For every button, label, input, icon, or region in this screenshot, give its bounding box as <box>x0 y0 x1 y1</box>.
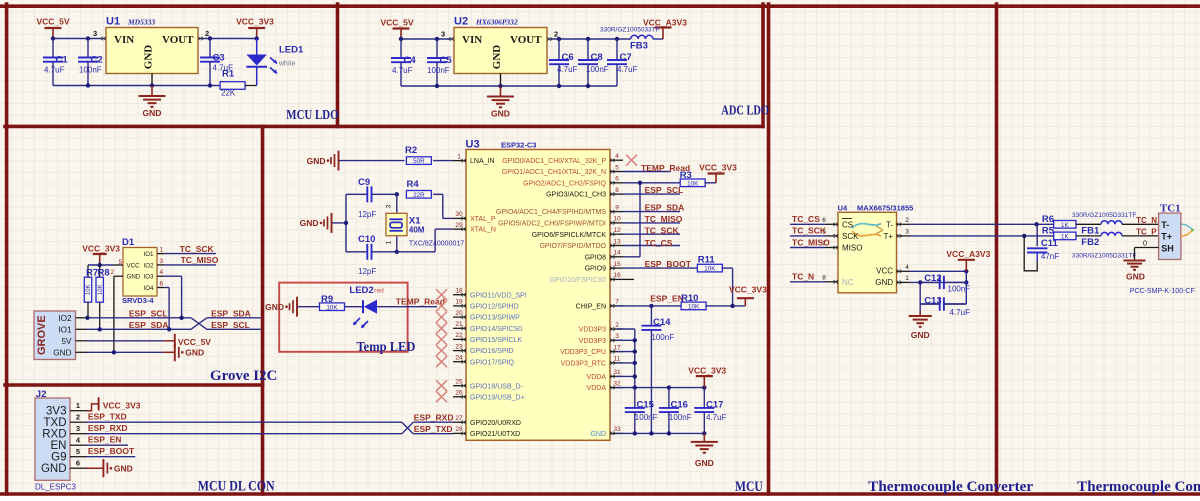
svg-text:4.7uF: 4.7uF <box>950 308 971 317</box>
svg-text:C11: C11 <box>1041 238 1059 249</box>
svg-text:ESP_SCL: ESP_SCL <box>129 308 168 318</box>
svg-text:4: 4 <box>905 264 909 271</box>
svg-text:4.7uF: 4.7uF <box>392 66 413 75</box>
svg-text:3: 3 <box>905 229 909 236</box>
svg-text:5V: 5V <box>61 337 72 346</box>
svg-text:9: 9 <box>615 204 619 211</box>
svg-text:GND: GND <box>127 274 141 281</box>
svg-text:R6: R6 <box>1042 214 1054 225</box>
svg-text:GND: GND <box>41 463 67 475</box>
svg-text:VCC_3V3: VCC_3V3 <box>82 244 120 254</box>
svg-text:C15: C15 <box>637 400 655 411</box>
svg-text:U3: U3 <box>466 139 480 151</box>
svg-text:2: 2 <box>554 30 558 39</box>
svg-text:C4: C4 <box>404 55 417 66</box>
svg-text:C14: C14 <box>653 317 671 328</box>
svg-text:IO2: IO2 <box>144 262 155 269</box>
svg-text:SH: SH <box>1161 243 1174 253</box>
svg-text:14: 14 <box>613 250 621 257</box>
svg-text:GPIO8: GPIO8 <box>585 254 607 261</box>
svg-text:3: 3 <box>615 333 619 340</box>
svg-text:GPIO4/ADC1_CH4/FSPIHD/MTMS: GPIO4/ADC1_CH4/FSPIHD/MTMS <box>496 209 606 216</box>
svg-text:IO3: IO3 <box>144 274 155 281</box>
svg-text:SRVD3-4: SRVD3-4 <box>122 296 154 305</box>
svg-text:TC_N: TC_N <box>1136 216 1157 225</box>
svg-text:100nF: 100nF <box>427 66 450 75</box>
svg-text:R7: R7 <box>86 268 98 279</box>
svg-text:1: 1 <box>160 247 164 254</box>
svg-text:GND: GND <box>185 348 204 358</box>
svg-text:GND: GND <box>1126 271 1145 281</box>
svg-text:10K: 10K <box>86 284 92 295</box>
svg-text:GPIO17/SPIQ: GPIO17/SPIQ <box>470 359 515 366</box>
svg-text:2: 2 <box>615 322 619 329</box>
svg-text:VCC_A3V3: VCC_A3V3 <box>946 249 990 259</box>
svg-text:3: 3 <box>160 258 164 265</box>
svg-text:VCC_5V: VCC_5V <box>36 17 69 27</box>
svg-text:100nF: 100nF <box>635 413 658 422</box>
svg-text:ESP_SCL: ESP_SCL <box>211 320 250 330</box>
svg-text:C5: C5 <box>440 55 453 66</box>
svg-text:GPIO11/VDD_SPI: GPIO11/VDD_SPI <box>470 292 527 299</box>
svg-text:IO2: IO2 <box>58 314 72 323</box>
svg-text:R10: R10 <box>681 293 698 304</box>
svg-text:C7: C7 <box>620 52 632 63</box>
svg-text:ESP_TXD: ESP_TXD <box>414 424 453 434</box>
svg-text:GPIO12/SPIHD: GPIO12/SPIHD <box>470 304 519 311</box>
svg-text:LNA_IN: LNA_IN <box>470 158 495 165</box>
svg-text:16: 16 <box>613 272 621 279</box>
svg-text:6: 6 <box>76 459 80 468</box>
svg-text:4.7uF: 4.7uF <box>706 413 727 422</box>
svg-text:VCC_5V: VCC_5V <box>178 337 211 347</box>
svg-text:white: white <box>278 61 295 68</box>
svg-text:GROVE: GROVE <box>36 315 48 355</box>
svg-text:GPIO15/SPICLK: GPIO15/SPICLK <box>470 337 522 344</box>
svg-text:1K: 1K <box>1061 234 1070 241</box>
svg-text:VDDA: VDDA <box>587 385 607 392</box>
svg-text:T-: T- <box>886 220 893 229</box>
svg-text:IO1: IO1 <box>58 325 72 334</box>
svg-text:0: 0 <box>1143 238 1147 247</box>
svg-text:C6: C6 <box>562 52 574 63</box>
svg-text:47nF: 47nF <box>1041 252 1059 261</box>
svg-text:1: 1 <box>905 275 909 282</box>
svg-text:5: 5 <box>76 447 80 456</box>
svg-text:R3: R3 <box>680 170 692 181</box>
svg-text:GND: GND <box>53 348 71 357</box>
svg-text:Grove I2C: Grove I2C <box>210 368 277 384</box>
svg-text:6: 6 <box>615 176 619 183</box>
svg-text:U1: U1 <box>106 16 120 28</box>
svg-text:GPIO9: GPIO9 <box>585 266 607 273</box>
svg-text:GPIO0/ADC1_CH0/XTAL_32K_P: GPIO0/ADC1_CH0/XTAL_32K_P <box>502 158 606 165</box>
svg-text:T+: T+ <box>1161 232 1172 242</box>
svg-text:CHIP_EN: CHIP_EN <box>576 304 606 311</box>
svg-text:D1: D1 <box>122 237 135 248</box>
svg-text:C12: C12 <box>924 273 941 284</box>
svg-text:7: 7 <box>615 299 619 306</box>
svg-text:R5: R5 <box>1042 225 1055 236</box>
svg-text:TC_CS: TC_CS <box>792 214 820 224</box>
svg-text:GND: GND <box>590 431 606 438</box>
svg-text:GPIO6/FSPICLK/MTCK: GPIO6/FSPICLK/MTCK <box>532 232 607 239</box>
svg-text:GPIO1/ADC1_CH1/XTAL_32K_N: GPIO1/ADC1_CH1/XTAL_32K_N <box>502 169 606 176</box>
svg-text:10K: 10K <box>688 304 700 311</box>
svg-text:VCC_3V3: VCC_3V3 <box>699 163 737 173</box>
svg-text:U4: U4 <box>838 204 848 213</box>
svg-text:ESP_SDA: ESP_SDA <box>129 320 169 330</box>
svg-text:C8: C8 <box>591 52 603 63</box>
svg-text:HX6306P332: HX6306P332 <box>475 18 518 27</box>
svg-text:GND: GND <box>265 302 284 312</box>
svg-text:FB3: FB3 <box>630 41 648 52</box>
svg-text:J2: J2 <box>36 389 47 400</box>
svg-text:100nF: 100nF <box>948 285 971 294</box>
svg-text:330R/GZ1005033TF: 330R/GZ1005033TF <box>600 27 660 34</box>
svg-text:TC_SCK: TC_SCK <box>645 226 680 236</box>
svg-text:FB2: FB2 <box>1081 237 1099 248</box>
svg-text:GPIO2/ADC1_CH2/FSPIQ: GPIO2/ADC1_CH2/FSPIQ <box>523 180 606 187</box>
svg-text:VCC_5V: VCC_5V <box>380 18 413 28</box>
svg-text:330R/GZ1005D331TF: 330R/GZ1005D331TF <box>1072 253 1136 260</box>
svg-text:22R: 22R <box>413 192 425 199</box>
svg-text:TC_CS: TC_CS <box>645 238 673 248</box>
svg-text:GND: GND <box>114 463 133 473</box>
svg-text:40M: 40M <box>409 226 425 235</box>
svg-text:15: 15 <box>613 261 621 268</box>
svg-text:MCU DL CON: MCU DL CON <box>198 478 275 494</box>
svg-text:NC: NC <box>842 278 854 287</box>
svg-text:GND: GND <box>143 45 155 70</box>
svg-text:VIN: VIN <box>462 34 482 46</box>
svg-text:100nF: 100nF <box>669 413 692 422</box>
svg-text:2: 2 <box>205 29 209 38</box>
svg-text:10K: 10K <box>687 180 699 187</box>
svg-text:GPIO18/USB_D-: GPIO18/USB_D- <box>470 383 524 390</box>
svg-text:TC_MISO: TC_MISO <box>181 255 219 265</box>
svg-text:ESP_BOOT: ESP_BOOT <box>645 259 692 269</box>
svg-text:GPIO16/SPID: GPIO16/SPID <box>470 348 514 355</box>
svg-text:100nF: 100nF <box>79 66 102 75</box>
svg-text:17: 17 <box>613 344 621 351</box>
svg-text:ESP_RXD: ESP_RXD <box>88 423 128 433</box>
svg-text:LED1: LED1 <box>279 45 304 56</box>
svg-text:C1: C1 <box>56 55 69 66</box>
svg-text:C2: C2 <box>91 55 103 66</box>
svg-text:4.7uF: 4.7uF <box>557 65 578 74</box>
svg-text:13: 13 <box>613 238 621 245</box>
svg-text:6: 6 <box>822 217 826 224</box>
svg-text:C9: C9 <box>358 177 370 188</box>
svg-text:VDD3P3_CPU: VDD3P3_CPU <box>560 349 606 356</box>
svg-text:GND: GND <box>911 330 930 340</box>
svg-text:GND: GND <box>307 156 326 166</box>
svg-text:VCC_3V3: VCC_3V3 <box>103 401 141 411</box>
svg-text:VOUT: VOUT <box>162 34 194 46</box>
svg-text:1K: 1K <box>1061 222 1070 229</box>
svg-text:R8: R8 <box>98 268 110 279</box>
svg-text:GPIO5/ADC2_CH0/FSPIWP/MTDI: GPIO5/ADC2_CH0/FSPIWP/MTDI <box>498 221 606 228</box>
svg-text:10K: 10K <box>704 266 716 273</box>
svg-text:R4: R4 <box>407 179 420 190</box>
svg-text:MCU: MCU <box>735 479 763 495</box>
svg-text:PCC-SMP-K-100-CF: PCC-SMP-K-100-CF <box>1130 288 1195 295</box>
svg-text:VDD3P3: VDD3P3 <box>579 327 606 334</box>
svg-text:2: 2 <box>111 269 115 276</box>
svg-text:RXD: RXD <box>42 429 66 441</box>
svg-text:TC1: TC1 <box>1160 202 1181 214</box>
svg-text:GND: GND <box>695 458 714 468</box>
svg-text:IO1: IO1 <box>144 251 155 258</box>
svg-text:4: 4 <box>615 153 619 160</box>
svg-text:TC_SCK: TC_SCK <box>180 244 215 254</box>
svg-text:GPIO21/U0TXD: GPIO21/U0TXD <box>470 431 520 438</box>
svg-text:8: 8 <box>615 187 619 194</box>
svg-text:VDDA: VDDA <box>587 374 607 381</box>
svg-text:1: 1 <box>457 153 461 160</box>
svg-text:LED2: LED2 <box>349 285 373 296</box>
svg-text:VCC_3V3: VCC_3V3 <box>729 285 767 295</box>
svg-text:SCK: SCK <box>842 232 859 241</box>
svg-text:10K: 10K <box>98 284 104 295</box>
svg-text:Thermocouple Connector: Thermocouple Connector <box>1077 479 1200 495</box>
svg-text:10K: 10K <box>326 304 338 311</box>
svg-text:VIN: VIN <box>114 34 134 46</box>
svg-text:TC_N: TC_N <box>792 272 814 282</box>
svg-text:330R/GZ1005D331TF: 330R/GZ1005D331TF <box>1072 212 1136 219</box>
svg-text:ESP32-C3: ESP32-C3 <box>501 141 536 150</box>
svg-text:C3: C3 <box>213 53 225 64</box>
svg-text:2: 2 <box>905 217 909 224</box>
svg-text:11: 11 <box>614 356 621 363</box>
svg-text:R2: R2 <box>405 145 417 156</box>
svg-text:TC_MISO: TC_MISO <box>792 237 830 247</box>
svg-text:DL_ESPC3: DL_ESPC3 <box>35 483 76 492</box>
svg-text:T-: T- <box>1161 220 1169 230</box>
svg-text:3: 3 <box>441 30 445 39</box>
svg-text:12pF: 12pF <box>358 210 376 219</box>
svg-text:G9: G9 <box>51 452 66 464</box>
svg-text:GPIO7/FSPID/MTDO: GPIO7/FSPID/MTDO <box>539 243 606 250</box>
svg-text:VDD3P3_RTC: VDD3P3_RTC <box>561 361 606 368</box>
svg-text:ESP_EN: ESP_EN <box>650 294 684 304</box>
svg-text:VOUT: VOUT <box>510 34 542 46</box>
svg-text:MISO: MISO <box>842 244 862 253</box>
svg-text:TC_SCK: TC_SCK <box>792 226 827 236</box>
svg-text:ESP_EN: ESP_EN <box>88 435 122 445</box>
svg-text:VCC: VCC <box>127 262 141 269</box>
svg-text:GND: GND <box>875 278 893 287</box>
svg-text:GPIO3/ADC1_CH3: GPIO3/ADC1_CH3 <box>546 192 606 199</box>
svg-text:2: 2 <box>76 413 80 422</box>
svg-text:C17: C17 <box>706 400 723 411</box>
svg-text:GPIO14/SPICS0: GPIO14/SPICS0 <box>470 326 522 333</box>
svg-text:ESP_TXD: ESP_TXD <box>88 412 127 422</box>
svg-text:22K: 22K <box>221 89 236 98</box>
svg-text:4.7uF: 4.7uF <box>44 66 65 75</box>
svg-text:32: 32 <box>613 380 621 387</box>
svg-text:31: 31 <box>613 369 621 376</box>
svg-text:1: 1 <box>386 240 393 244</box>
svg-text:3: 3 <box>386 204 393 208</box>
svg-text:GPIO19/USB_D+: GPIO19/USB_D+ <box>470 394 525 401</box>
svg-text:VCC_3V3: VCC_3V3 <box>688 366 726 376</box>
svg-text:GND: GND <box>491 109 510 119</box>
svg-text:4: 4 <box>160 269 164 276</box>
svg-text:C16: C16 <box>671 400 688 411</box>
svg-text:ESP_BOOT: ESP_BOOT <box>88 446 135 456</box>
svg-text:FB1: FB1 <box>1081 226 1100 237</box>
svg-text:GPIO20/U0RXD: GPIO20/U0RXD <box>470 420 521 427</box>
svg-text:3: 3 <box>76 424 80 433</box>
svg-text:GND: GND <box>143 108 162 118</box>
svg-text:TXD: TXD <box>44 417 67 429</box>
svg-text:R11: R11 <box>698 255 716 266</box>
svg-text:GPIO10/FSPICS0: GPIO10/FSPICS0 <box>550 277 607 284</box>
svg-text:8: 8 <box>822 275 826 282</box>
svg-text:CS: CS <box>842 220 853 229</box>
svg-text:3: 3 <box>93 29 97 38</box>
svg-text:5: 5 <box>119 259 123 266</box>
svg-text:U2: U2 <box>454 16 468 28</box>
svg-text:TC_MISO: TC_MISO <box>645 214 683 224</box>
svg-text:GPIO13/SPIWP: GPIO13/SPIWP <box>470 315 520 322</box>
svg-text:100nF: 100nF <box>586 65 609 74</box>
svg-text:EN: EN <box>51 440 67 452</box>
svg-text:red: red <box>374 288 384 295</box>
svg-text:50R: 50R <box>413 158 425 165</box>
svg-text:5: 5 <box>615 164 619 171</box>
svg-text:XTAL_P: XTAL_P <box>470 216 496 223</box>
svg-text:VDD3P3: VDD3P3 <box>579 338 606 345</box>
svg-text:MCU LDO: MCU LDO <box>286 108 338 123</box>
svg-text:12pF: 12pF <box>358 267 376 276</box>
svg-text:Temp LED: Temp LED <box>357 340 416 355</box>
svg-text:IO4: IO4 <box>144 285 155 292</box>
svg-text:MD5333: MD5333 <box>127 18 155 27</box>
svg-text:ESP_SCL: ESP_SCL <box>645 185 684 195</box>
svg-text:Thermocouple Converter: Thermocouple Converter <box>868 479 1033 495</box>
svg-text:ESP_SDA: ESP_SDA <box>211 308 251 318</box>
svg-text:VCC: VCC <box>876 267 893 276</box>
svg-text:GND: GND <box>300 218 319 228</box>
svg-text:T+: T+ <box>883 232 893 241</box>
svg-text:ESP_SDA: ESP_SDA <box>645 202 685 212</box>
svg-text:12: 12 <box>613 227 621 234</box>
svg-text:XTAL_N: XTAL_N <box>470 227 496 234</box>
svg-text:3V3: 3V3 <box>46 406 66 418</box>
svg-text:MAX6675/31855: MAX6675/31855 <box>857 204 913 213</box>
svg-text:4.7uF: 4.7uF <box>617 65 638 74</box>
svg-text:10: 10 <box>613 216 621 223</box>
svg-text:C13: C13 <box>924 296 941 307</box>
svg-text:ADC LDO: ADC LDO <box>721 104 769 119</box>
svg-text:VCC_3V3: VCC_3V3 <box>236 17 274 27</box>
svg-text:1: 1 <box>76 401 80 410</box>
svg-text:ESP_RXD: ESP_RXD <box>414 412 454 422</box>
svg-text:TC_P: TC_P <box>1136 228 1157 237</box>
svg-text:GND: GND <box>491 45 503 70</box>
svg-text:33: 33 <box>613 426 621 433</box>
svg-text:C10: C10 <box>358 234 375 245</box>
svg-text:100nF: 100nF <box>651 333 674 342</box>
svg-text:6: 6 <box>160 280 164 287</box>
svg-text:R9: R9 <box>321 294 333 305</box>
svg-text:TXC/8Z40000017: TXC/8Z40000017 <box>409 240 464 247</box>
svg-text:R1: R1 <box>222 69 235 80</box>
